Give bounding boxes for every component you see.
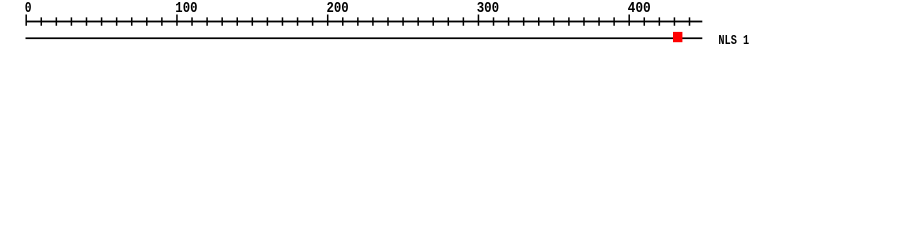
ruler major ticks (0,100,200,300,400) [26,15,629,26]
svg-text:100: 100 [175,0,197,17]
svg-text:300: 300 [477,0,500,17]
NLS motif marker (red box) [673,32,682,42]
svg-text:NLS 1: NLS 1 [718,33,749,49]
protein sequence line [26,37,703,39]
ruler minor ticks (every 10 aa) [41,17,689,25]
svg-text:200: 200 [327,0,349,17]
svg-text:0: 0 [25,0,32,17]
ruler axis line [26,21,703,23]
svg-text:400: 400 [628,0,651,17]
